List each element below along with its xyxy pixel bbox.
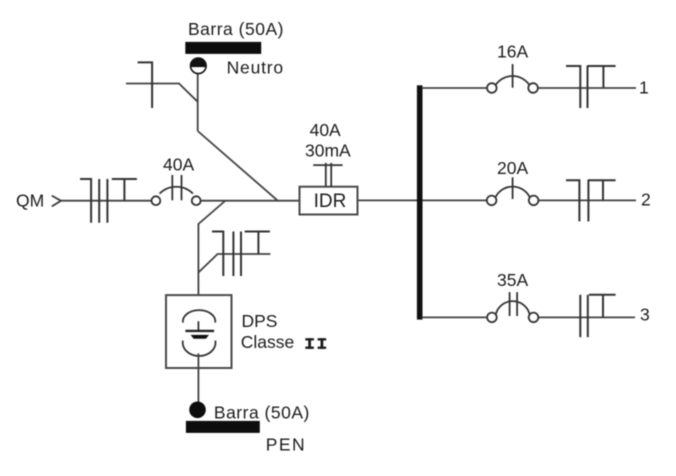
svg-text:35A: 35A: [497, 270, 528, 290]
svg-text:IDR: IDR: [314, 191, 347, 212]
wire breaker to IDR: [201, 200, 300, 202]
wire neutral vertical: [197, 74, 199, 131]
svg-text:Neutro: Neutro: [227, 58, 284, 78]
circuit breaker 16A: [487, 64, 538, 93]
cable symbol branch 1 (2 conductors + T): [566, 66, 616, 109]
wire branch 2 after breaker: [539, 199, 636, 201]
arrow input chevron: [52, 196, 61, 207]
wire IDR to busbar and branch 2 start: [358, 199, 487, 201]
svg-text:Classe: Classe: [241, 332, 295, 352]
svg-text:Barra (50A): Barra (50A): [214, 403, 310, 423]
cable symbol branch 3 (2 conductors + T): [580, 295, 615, 337]
svg-text:40A: 40A: [163, 154, 194, 174]
circuit breaker 35A: [487, 292, 538, 322]
wire DPS tap diagonal: [198, 201, 225, 310]
surge arrester circle arcs: [183, 310, 216, 356]
svg-text:Barra (50A): Barra (50A): [188, 19, 284, 39]
cable tick neutral (1 conductor): [138, 62, 153, 108]
wire neutral diagonal to main: [198, 131, 278, 200]
svg-text:1: 1: [639, 78, 649, 98]
wire branch 3 right: [539, 316, 635, 318]
svg-text:16A: 16A: [497, 42, 528, 62]
wire branch 3 left: [422, 316, 486, 318]
wire branch 1 right: [538, 87, 636, 89]
cable symbol service entrance (3 phases + T): [80, 179, 137, 223]
busbar PEN: [186, 421, 260, 433]
label II roman numeral: [305, 338, 326, 349]
node PEN filled: [189, 402, 206, 419]
cable symbol branch 2 (2 conductors + T): [566, 180, 616, 222]
circuit breaker QM 40A: [152, 175, 201, 205]
wire neutral horizontal: [126, 84, 198, 102]
circuit breaker 20A: [487, 177, 539, 205]
device IDR box: [300, 187, 358, 215]
svg-text:DPS: DPS: [242, 311, 278, 331]
svg-text:30mA: 30mA: [305, 141, 351, 161]
svg-text:PEN: PEN: [266, 435, 306, 455]
wire DPS bottom: [197, 353, 199, 402]
cable symbol DPS branch (3 phases + T): [212, 232, 270, 277]
busbar Neutro: [185, 42, 261, 54]
earth symbol inside DPS: [185, 321, 214, 338]
svg-text:3: 3: [640, 305, 650, 325]
svg-text:2: 2: [641, 190, 651, 210]
wire main QM segment: [61, 200, 152, 202]
svg-text:40A: 40A: [310, 120, 341, 140]
svg-text:20A: 20A: [497, 158, 528, 178]
wire cable stub DPS: [198, 254, 270, 273]
node Neutro half-filled: [191, 58, 207, 74]
busbar distribution vertical: [417, 85, 423, 319]
device DPS box: [166, 295, 232, 368]
svg-text:QM: QM: [16, 191, 44, 211]
wire branch 1 left: [422, 87, 487, 89]
symbol test tap above IDR: [313, 163, 342, 187]
